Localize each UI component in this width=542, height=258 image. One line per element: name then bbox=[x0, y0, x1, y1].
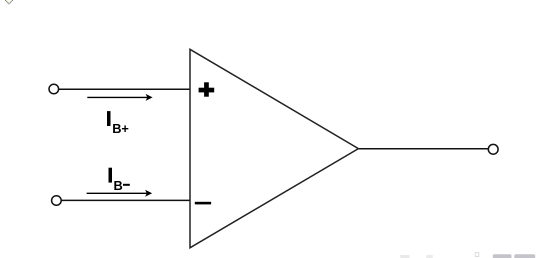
svg-text:B+: B+ bbox=[112, 121, 129, 136]
svg-text:B: B bbox=[114, 178, 123, 193]
